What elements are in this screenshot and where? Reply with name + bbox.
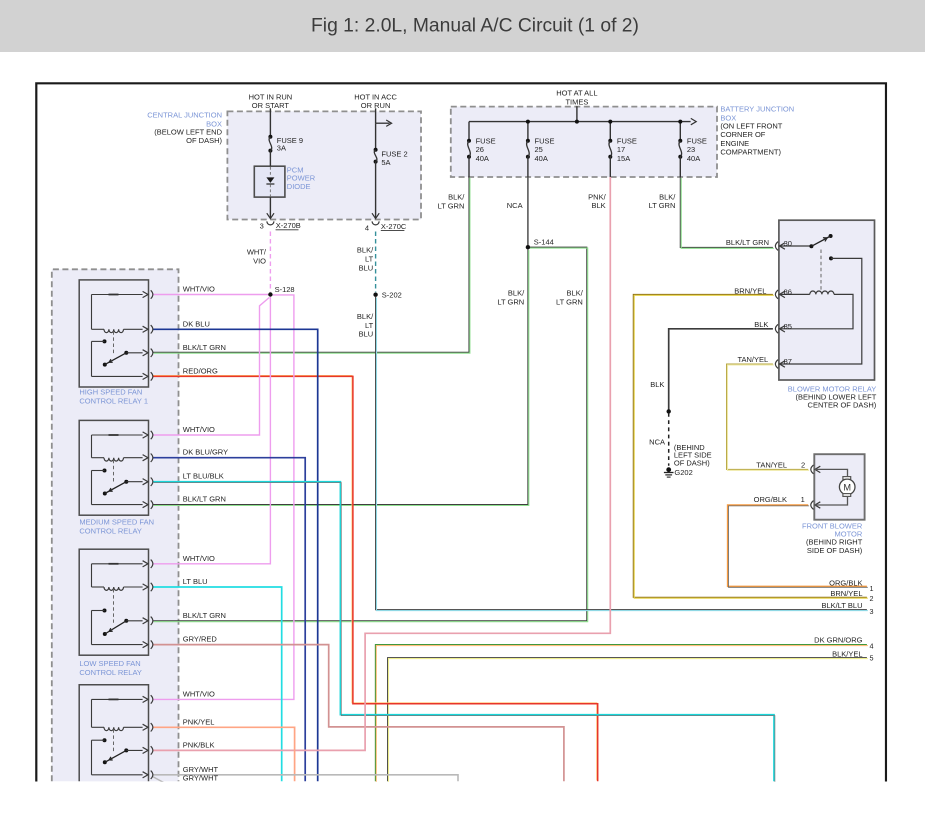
svg-text:25: 25 [535,145,543,154]
svg-text:BLU: BLU [359,330,374,339]
svg-text:40A: 40A [687,154,700,163]
svg-text:FUSE: FUSE [617,136,637,145]
svg-text:87: 87 [784,357,792,366]
svg-text:DK GRN/ORG: DK GRN/ORG [814,636,863,645]
svg-text:LT: LT [365,255,374,264]
svg-text:NCA: NCA [507,201,523,210]
svg-text:X-270B: X-270B [276,221,301,230]
svg-text:BLK/YEL: BLK/YEL [832,650,862,659]
svg-text:LT BLU/BLK: LT BLU/BLK [183,472,224,481]
svg-text:LT BLU: LT BLU [183,577,208,586]
svg-text:85: 85 [784,322,792,331]
svg-text:LOW SPEED FAN: LOW SPEED FAN [79,659,140,668]
svg-text:COMPARTMENT): COMPARTMENT) [720,148,781,157]
svg-text:TAN/YEL: TAN/YEL [737,355,768,364]
svg-text:M: M [843,482,851,492]
svg-text:FUSE: FUSE [476,136,496,145]
svg-text:BLK: BLK [592,201,606,210]
svg-text:86: 86 [784,288,792,297]
svg-text:CENTRAL JUNCTION: CENTRAL JUNCTION [147,110,222,119]
svg-text:BATTERY JUNCTION: BATTERY JUNCTION [720,104,794,113]
svg-text:5: 5 [870,654,874,663]
svg-text:1: 1 [870,584,874,593]
svg-text:LT GRN: LT GRN [649,201,676,210]
svg-text:LT GRN: LT GRN [556,297,583,306]
svg-text:5A: 5A [381,158,390,167]
svg-text:VIO: VIO [253,257,266,266]
svg-text:HIGH SPEED FAN: HIGH SPEED FAN [79,387,142,396]
svg-text:NCA: NCA [649,438,665,447]
svg-text:BLK: BLK [754,320,768,329]
svg-text:2: 2 [870,594,874,603]
svg-text:TAN/YEL: TAN/YEL [756,461,787,470]
svg-text:PNK/YEL: PNK/YEL [183,717,215,726]
svg-text:OF DASH): OF DASH) [674,458,710,467]
svg-text:ENGINE: ENGINE [720,139,749,148]
svg-text:ORG/BLK: ORG/BLK [829,579,862,588]
svg-text:CONTROL RELAY: CONTROL RELAY [79,526,142,535]
svg-text:SIDE OF DASH): SIDE OF DASH) [807,546,863,555]
svg-text:OR RUN: OR RUN [361,101,391,110]
svg-text:HOT IN ACC: HOT IN ACC [354,93,397,102]
svg-text:DIODE: DIODE [287,182,311,191]
svg-text:S-202: S-202 [382,290,402,299]
svg-text:HOT IN RUN: HOT IN RUN [249,93,293,102]
svg-text:BLK/: BLK/ [508,289,525,298]
svg-text:DK BLU/GRY: DK BLU/GRY [183,448,228,457]
svg-text:RED/ORG: RED/ORG [183,366,218,375]
svg-text:BLK/LT GRN: BLK/LT GRN [183,611,226,620]
svg-text:BLK/LT GRN: BLK/LT GRN [183,495,226,504]
svg-text:BLK/: BLK/ [448,193,465,202]
svg-text:WHT/VIO: WHT/VIO [183,425,215,434]
svg-text:3: 3 [260,222,264,231]
svg-text:BLK/: BLK/ [567,289,584,298]
svg-text:WHT/VIO: WHT/VIO [183,554,215,563]
svg-text:GRY/WHT: GRY/WHT [183,774,219,783]
svg-text:LT: LT [365,321,374,330]
svg-text:(BELOW LEFT END: (BELOW LEFT END [154,127,222,136]
svg-text:BLK/: BLK/ [357,246,374,255]
svg-text:40A: 40A [476,154,489,163]
svg-text:X-270C: X-270C [381,222,407,231]
svg-text:30: 30 [784,239,792,248]
svg-text:BLK/LT BLU: BLK/LT BLU [822,601,863,610]
svg-text:3A: 3A [277,143,286,152]
svg-text:4: 4 [870,641,874,650]
svg-text:4: 4 [365,223,369,232]
svg-text:MEDIUM SPEED FAN: MEDIUM SPEED FAN [79,517,154,526]
svg-text:BLK/LT GRN: BLK/LT GRN [726,238,769,247]
svg-text:LT GRN: LT GRN [497,297,524,306]
svg-text:WHT/VIO: WHT/VIO [183,285,215,294]
svg-text:CENTER OF DASH): CENTER OF DASH) [808,400,877,409]
svg-text:17: 17 [617,145,625,154]
svg-text:Fig 1: 2.0L, Manual A/C Circui: Fig 1: 2.0L, Manual A/C Circuit (1 of 2) [311,15,639,36]
svg-text:2: 2 [801,461,805,470]
svg-text:FUSE: FUSE [535,136,555,145]
svg-text:BRN/YEL: BRN/YEL [734,286,766,295]
svg-text:BLK: BLK [650,380,664,389]
svg-text:3: 3 [870,607,874,616]
svg-text:DK BLU: DK BLU [183,319,210,328]
svg-text:TIMES: TIMES [565,97,588,106]
svg-text:OR START: OR START [252,101,290,110]
svg-text:26: 26 [476,145,484,154]
svg-text:ORG/BLK: ORG/BLK [754,495,787,504]
svg-text:HOT AT ALL: HOT AT ALL [556,89,597,98]
svg-text:GRY/WHT: GRY/WHT [183,765,219,774]
svg-text:(ON LEFT FRONT: (ON LEFT FRONT [720,121,782,130]
svg-text:S-128: S-128 [275,285,295,294]
svg-text:1: 1 [801,495,805,504]
svg-text:LT GRN: LT GRN [438,201,465,210]
svg-text:G202: G202 [674,468,692,477]
svg-text:FUSE: FUSE [687,136,707,145]
svg-text:PNK/BLK: PNK/BLK [183,740,215,749]
svg-text:GRY/RED: GRY/RED [183,635,218,644]
svg-text:WHT/VIO: WHT/VIO [183,689,215,698]
svg-text:15A: 15A [617,154,630,163]
svg-text:CONTROL RELAY 1: CONTROL RELAY 1 [79,396,148,405]
svg-text:40A: 40A [535,154,548,163]
svg-text:BLK/LT GRN: BLK/LT GRN [183,343,226,352]
svg-text:WHT/: WHT/ [247,248,267,257]
svg-text:23: 23 [687,145,695,154]
svg-text:S-144: S-144 [534,237,554,246]
svg-text:BLK/: BLK/ [357,312,374,321]
svg-text:OF DASH): OF DASH) [186,136,222,145]
svg-text:CONTROL RELAY: CONTROL RELAY [79,668,142,677]
svg-text:BRN/YEL: BRN/YEL [830,589,862,598]
svg-text:BLU: BLU [359,264,374,273]
